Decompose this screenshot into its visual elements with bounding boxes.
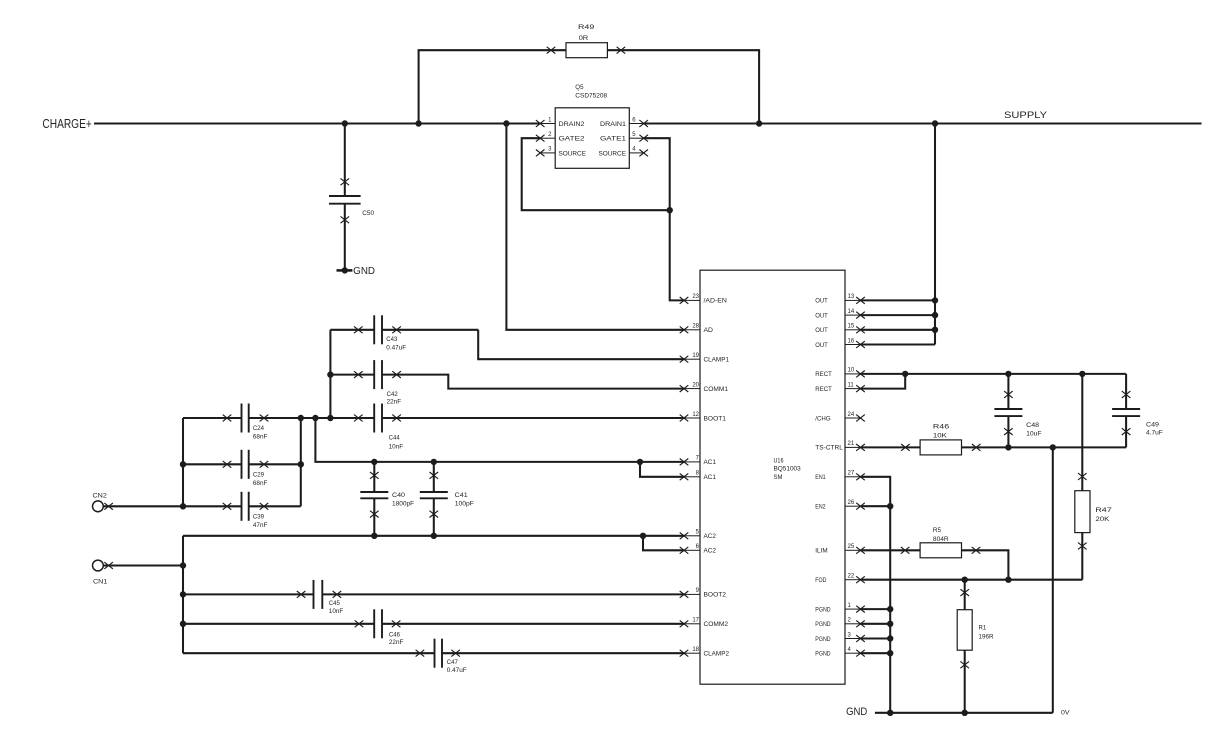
wire C39 row [183, 505, 301, 507]
net label CHARGE+ [42, 116, 91, 131]
capacitor C48 10uF [994, 374, 1041, 448]
ground GND (C50) [337, 266, 376, 277]
svg-text:28: 28 [692, 324, 699, 330]
capacitor C40 1800pF [360, 462, 414, 536]
svg-text:OUT: OUT [815, 298, 828, 305]
svg-text:AC2: AC2 [704, 533, 717, 540]
capacitor C47 0.47uF [416, 639, 467, 675]
svg-text:R49: R49 [578, 24, 595, 31]
resistor R1 196R [957, 580, 993, 713]
svg-text:16: 16 [848, 338, 855, 344]
connector CN2 [93, 493, 184, 512]
svg-text:10uF: 10uF [1026, 430, 1042, 437]
capacitor C43 0.47uF [354, 315, 406, 351]
svg-text:22: 22 [848, 574, 855, 580]
Q5 pin 2 GATE2 [536, 132, 585, 143]
svg-text:C45: C45 [329, 600, 340, 607]
capacitor C44 10nF [354, 404, 403, 451]
svg-text:CLAMP1: CLAMP1 [704, 357, 730, 364]
U16 pin 12 BOOT1 [680, 412, 727, 423]
svg-text:OUT: OUT [815, 327, 828, 334]
svg-text:26: 26 [848, 500, 855, 506]
capacitor C45 10nF [297, 580, 344, 615]
U16 pin 1 PGND [815, 603, 865, 614]
svg-text:RECT: RECT [815, 371, 832, 378]
net label 0V [1061, 710, 1070, 717]
svg-text:C40: C40 [392, 492, 405, 499]
svg-text:10nF: 10nF [329, 608, 344, 615]
capacitor C39 47nF [223, 492, 269, 529]
wire RECT net [861, 371, 1127, 388]
svg-text:14: 14 [848, 309, 855, 315]
svg-text:BQ51003: BQ51003 [774, 466, 801, 473]
resistor R46 10K [920, 424, 961, 455]
resistor R47 20K [1075, 374, 1112, 580]
svg-text:17: 17 [692, 618, 699, 624]
svg-text:C47: C47 [447, 659, 458, 666]
svg-text:GATE2: GATE2 [559, 136, 585, 143]
svg-text:23: 23 [692, 294, 699, 300]
svg-text:COMM1: COMM1 [704, 386, 729, 393]
capacitor C46 22nF [355, 609, 404, 646]
U16 pin 15 OUT [815, 324, 865, 335]
wire ILIM right to FOD [962, 547, 1012, 583]
svg-text:25: 25 [848, 544, 855, 550]
svg-text:OUT: OUT [815, 342, 828, 349]
wire C29 row [183, 462, 303, 467]
svg-text:22nF: 22nF [389, 639, 404, 646]
U16 pin 20 COMM1 [680, 382, 728, 393]
IC U16 reference labels [774, 457, 801, 481]
svg-text:TS-CTRL: TS-CTRL [815, 445, 843, 452]
svg-text:0.47uF: 0.47uF [386, 345, 406, 352]
svg-text:BOOT1: BOOT1 [704, 415, 727, 422]
svg-text:12: 12 [692, 412, 699, 418]
svg-text:GND: GND [846, 706, 867, 718]
wire COMM2 row [183, 623, 684, 625]
svg-text:R46: R46 [933, 424, 950, 431]
svg-text:10: 10 [848, 368, 855, 374]
svg-text:C41: C41 [455, 492, 468, 499]
svg-text:PGND: PGND [815, 606, 830, 613]
Q5 pin 6 DRAIN1 [600, 117, 648, 128]
svg-text:ILIM: ILIM [815, 548, 828, 555]
U16 pin 7 AC1 [680, 456, 716, 467]
svg-text:CHARGE+: CHARGE+ [42, 116, 91, 131]
svg-text:18: 18 [692, 647, 699, 653]
svg-text:11: 11 [848, 382, 855, 388]
svg-text:C44: C44 [389, 435, 400, 442]
svg-text:PGND: PGND [815, 651, 830, 658]
svg-text:C49: C49 [1146, 422, 1159, 429]
svg-text:27: 27 [848, 471, 855, 477]
svg-text:C39: C39 [253, 514, 264, 521]
svg-text:Q5: Q5 [575, 84, 583, 91]
svg-text:GATE1: GATE1 [600, 136, 626, 143]
U16 pin 8 AC1 [680, 471, 716, 482]
svg-text:0R: 0R [579, 35, 589, 42]
svg-text:0V: 0V [1061, 710, 1070, 717]
svg-text:AC2: AC2 [704, 548, 717, 555]
wire OUT bus [861, 124, 938, 345]
svg-text:C50: C50 [362, 210, 374, 217]
wire COMM1 net [330, 375, 684, 389]
wire TS-CTRL left [861, 444, 921, 451]
U16 pin 6 AC2 [680, 544, 716, 555]
wire ILIM left [861, 547, 921, 554]
svg-text:CN1: CN1 [93, 578, 108, 585]
svg-text:4.7uF: 4.7uF [1146, 430, 1163, 437]
U16 pin 5 AC2 [680, 530, 716, 541]
Q5 pin 1 DRAIN2 [536, 117, 585, 128]
U16 pin 16 OUT [815, 338, 865, 349]
svg-text:15: 15 [848, 324, 855, 330]
svg-text:CSD75208: CSD75208 [575, 92, 607, 99]
wire CN1 vertical bus [180, 536, 185, 653]
svg-text:24: 24 [848, 412, 855, 418]
U16 pin 10 RECT [815, 368, 865, 379]
wire SUPPLY net [644, 121, 1202, 126]
svg-text:SM: SM [774, 474, 783, 481]
svg-text:10K: 10K [933, 433, 948, 440]
svg-text:EN1: EN1 [815, 474, 825, 481]
svg-text:AC1: AC1 [704, 474, 717, 481]
svg-text:10nF: 10nF [389, 444, 404, 451]
svg-text:20: 20 [692, 382, 699, 388]
svg-text:PGND: PGND [815, 636, 830, 643]
svg-text:R1: R1 [979, 625, 987, 632]
U16 pin 22 FOD [815, 574, 865, 585]
svg-text:CLAMP2: CLAMP2 [704, 651, 730, 658]
svg-text:SUPPLY: SUPPLY [1004, 110, 1047, 120]
wire AD branch [506, 124, 684, 330]
wire EN1/EN2/PGND bus [861, 477, 893, 713]
U16 pin 17 COMM2 [680, 618, 728, 629]
svg-text:PGND: PGND [815, 621, 830, 628]
wire C43/C42 feed vertical [328, 330, 333, 418]
resistor R49 0R [566, 24, 607, 58]
svg-text:AD: AD [704, 327, 714, 334]
svg-text:SOURCE: SOURCE [599, 150, 627, 157]
svg-text:804R: 804R [933, 536, 949, 543]
svg-text:DRAIN1: DRAIN1 [600, 121, 626, 128]
svg-text:100pF: 100pF [455, 501, 474, 508]
svg-text:13: 13 [848, 294, 855, 300]
svg-text:1800pF: 1800pF [392, 501, 414, 508]
U16 pin 11 RECT [815, 382, 865, 393]
svg-text:C46: C46 [389, 631, 400, 638]
svg-text:/CHG: /CHG [815, 415, 830, 422]
svg-text:C24: C24 [253, 425, 264, 432]
wire CHARGE+ net [94, 121, 540, 126]
U16 pin 27 EN1 [815, 471, 865, 482]
svg-text:0.47uF: 0.47uF [447, 667, 467, 674]
wire TS-CTRL right [962, 444, 1127, 451]
svg-text:19: 19 [692, 353, 699, 359]
svg-text:EN2: EN2 [815, 504, 825, 511]
U16 pin 26 EN2 [815, 500, 865, 511]
svg-text:RECT: RECT [815, 386, 832, 393]
U16 pin 2 PGND [815, 618, 865, 629]
net label SUPPLY [1004, 110, 1047, 120]
svg-text:/AD-EN: /AD-EN [704, 298, 727, 305]
connector CN1 [93, 560, 184, 585]
svg-text:U16: U16 [774, 457, 784, 464]
wire AC2 net [183, 533, 684, 550]
transistor Q5 CSD75208 [555, 84, 629, 168]
U16 pin 28 AD [680, 324, 713, 335]
svg-text:C43: C43 [386, 336, 397, 343]
svg-text:196R: 196R [979, 633, 994, 640]
svg-text:21: 21 [848, 441, 855, 447]
wire Q5 gate loop [522, 138, 673, 213]
U16 pin 18 CLAMP2 [680, 647, 730, 658]
svg-text:20K: 20K [1095, 516, 1110, 523]
U16 pin 19 CLAMP1 [680, 353, 730, 364]
svg-text:DRAIN2: DRAIN2 [559, 121, 585, 128]
resistor R5 804R [920, 527, 961, 558]
svg-text:C29: C29 [253, 472, 264, 479]
svg-text:SOURCE: SOURCE [559, 150, 587, 157]
svg-text:68nF: 68nF [253, 434, 268, 441]
capacitor C24 68nF [223, 404, 269, 441]
capacitor C49 4.7uF [1112, 374, 1163, 448]
U16 pin 3 PGND [815, 632, 865, 643]
capacitor C29 68nF [223, 450, 269, 487]
U16 pin 9 BOOT2 [680, 588, 727, 599]
wire BOOT1 row [183, 415, 684, 420]
U16 pin 13 OUT [815, 294, 865, 305]
wire BOOT2 row [183, 593, 684, 595]
wire GND bottom net [875, 710, 1053, 715]
svg-text:68nF: 68nF [253, 480, 268, 487]
wire 0V drop [1052, 447, 1054, 712]
wire /AD-EN branch [670, 210, 684, 300]
svg-text:C42: C42 [387, 391, 398, 398]
wire FOD net [861, 577, 1083, 582]
svg-text:GND: GND [353, 266, 375, 277]
U16 pin 24 /CHG [815, 412, 865, 423]
svg-text:R5: R5 [933, 527, 941, 534]
capacitor C50 [329, 124, 374, 271]
svg-text:22nF: 22nF [387, 399, 402, 406]
svg-text:R47: R47 [1095, 507, 1112, 514]
U16 pin 21 TS-CTRL [815, 441, 865, 452]
net label GND bottom [846, 706, 867, 718]
wire R49 branch [419, 47, 759, 124]
wire AC1 net [315, 418, 684, 477]
svg-text:COMM2: COMM2 [704, 621, 729, 628]
svg-text:47nF: 47nF [253, 522, 268, 529]
Q5 pin 4 SOURCE [599, 147, 649, 158]
capacitor C42 22nF [354, 360, 401, 406]
wire CLAMP2 row [183, 652, 684, 654]
svg-text:AC1: AC1 [704, 459, 717, 466]
U16 pin 14 OUT [815, 309, 865, 320]
wire left vertical bus (CN2) [180, 418, 185, 509]
capacitor C41 100pF [420, 462, 474, 536]
svg-text:OUT: OUT [815, 312, 828, 319]
Q5 pin 5 GATE1 [600, 132, 648, 143]
U16 pin 4 PGND [815, 647, 865, 658]
svg-text:C48: C48 [1026, 422, 1039, 429]
svg-text:FOD: FOD [815, 577, 826, 584]
wire right vertical (cap bank) [300, 418, 302, 506]
Q5 pin 3 SOURCE [536, 147, 587, 158]
U16 pin 23 /AD-EN [680, 294, 727, 305]
op-amp/IC U16 BQ51003 body [700, 270, 845, 684]
U16 pin 25 ILIM [815, 544, 865, 555]
wire CLAMP1 net [330, 330, 684, 359]
svg-text:CN2: CN2 [93, 493, 108, 500]
svg-text:BOOT2: BOOT2 [704, 592, 727, 599]
